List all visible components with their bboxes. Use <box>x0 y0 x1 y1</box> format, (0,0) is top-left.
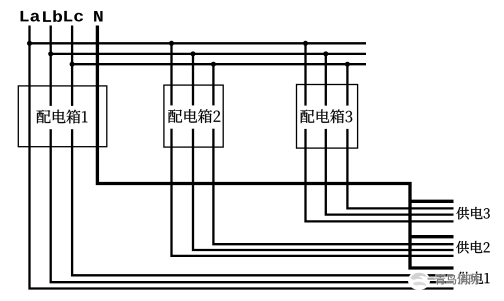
wire bus Lc horizontal <box>72 63 366 65</box>
junction Lc to box3 <box>345 62 350 67</box>
wire neutral branch to feed 3 <box>410 200 454 203</box>
watermark logo bird emblem <box>408 271 430 290</box>
wire Lb branch through box2 to feed 2 <box>193 54 454 250</box>
wire neutral branch to feed 2 <box>410 235 454 238</box>
output label 供电2 <box>456 241 489 253</box>
junction Lb to box3 <box>323 51 328 56</box>
terminal label La <box>21 11 40 22</box>
label 配电箱1 <box>35 106 89 129</box>
wire phase Lb: vertical drop from terminal Lb through box1 then right to feed 1 <box>51 26 454 283</box>
distribution box U3 配电箱3 outline <box>297 85 358 149</box>
watermark dash <box>428 278 437 280</box>
junction Lb to box2 <box>191 51 196 56</box>
wire bus La horizontal <box>30 42 367 44</box>
terminal label Lb <box>43 10 62 22</box>
wire Lc branch through box2 to feed 2 <box>213 64 453 244</box>
distribution box U2 配电箱2 outline <box>164 85 223 147</box>
wire neutral N: vertical drop through box1, right, down and right to feed 1 <box>97 26 453 269</box>
junction La to box3 <box>303 41 308 46</box>
output label 供电3 <box>456 207 489 219</box>
wire Lb branch through box3 to feed 3 <box>326 54 454 215</box>
output label 供电1 <box>457 272 489 284</box>
junction La bus tap <box>27 41 32 46</box>
terminal label N <box>94 11 102 22</box>
label 配电箱2 <box>167 105 222 128</box>
wire bus Lb horizontal <box>51 53 366 55</box>
wire La branch through box2 to feed 2 <box>172 43 454 256</box>
wire Lc branch through box3 to feed 3 <box>347 64 453 208</box>
terminal label Lc <box>64 11 83 22</box>
junction Lb bus tap <box>48 51 53 56</box>
wire phase Lc: vertical drop from terminal Lc through box1 then right to feed 1 <box>72 26 453 276</box>
junction La to box2 <box>169 41 174 46</box>
distribution box U1 配电箱1 outline <box>18 86 107 147</box>
wire La branch through box3 to feed 3 <box>306 43 454 221</box>
label 配电箱3 <box>299 106 354 129</box>
wire phase La: vertical drop from terminal La through box1 then right to feed 1 <box>30 26 454 289</box>
junction Lc to box2 <box>211 62 216 67</box>
junction Lc bus tap <box>70 62 75 67</box>
watermark text 青鸟消防 <box>435 274 479 284</box>
